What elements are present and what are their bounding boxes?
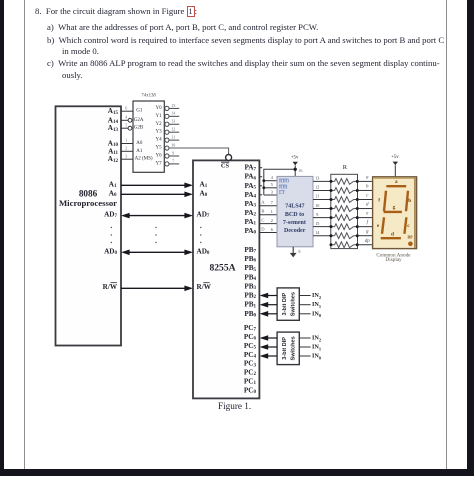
svg-text:3-bit DIP: 3-bit DIP: [282, 292, 288, 315]
svg-text:Display: Display: [386, 257, 403, 263]
8255 port C labels PC7-PC0: [244, 324, 257, 395]
8255 R/W label with overbar on W: [197, 283, 212, 291]
microprocessor U1 8086 box: [56, 106, 122, 345]
svg-text:a: a: [366, 175, 369, 180]
svg-text:g: g: [366, 230, 369, 235]
svg-text:12: 12: [315, 185, 319, 190]
wire DIP2 row 2 to 8255: [260, 353, 278, 359]
junction dots RBO RBI: [262, 179, 265, 189]
svg-text:RBI: RBI: [279, 185, 288, 190]
stubs RBO RBI LT: [264, 181, 277, 195]
wire AD7 bus double arrow: [121, 213, 193, 219]
wire A11 to A1: [121, 150, 133, 152]
svg-text:G1: G1: [136, 109, 143, 114]
svg-text:f: f: [378, 198, 380, 204]
resistor R5: [330, 215, 359, 221]
switch SW1 3-bit DIP box: [277, 288, 299, 320]
svg-text:8: 8: [298, 249, 300, 254]
svg-text:a: a: [395, 179, 398, 185]
svg-text:d: d: [391, 231, 394, 237]
svg-text:G2B: G2B: [134, 126, 144, 131]
svg-text:14: 14: [315, 230, 320, 235]
resistor R3: [330, 197, 359, 203]
power +5v symbol above 74LS47: [291, 156, 299, 177]
wire DIP1 row 2 to 8255: [260, 311, 278, 317]
svg-text:d: d: [366, 203, 369, 208]
segment e: [382, 217, 384, 234]
decoder U2 74x138 box: [133, 94, 164, 173]
pin numbers 7 1 2 6: [271, 200, 273, 232]
8086 bus pin labels: [104, 180, 117, 255]
svg-text:e: e: [366, 212, 369, 217]
segment f: [384, 191, 386, 212]
svg-text:Y2: Y2: [155, 122, 162, 127]
svg-text:10: 10: [171, 142, 175, 147]
svg-text:12: 12: [171, 127, 175, 132]
svg-text:G2A: G2A: [134, 118, 144, 123]
svg-text:11: 11: [315, 194, 319, 199]
svg-text:Switches: Switches: [291, 336, 297, 360]
resistor R1: [330, 179, 359, 185]
svg-text:1: 1: [125, 138, 127, 143]
svg-text:LT: LT: [279, 191, 286, 196]
svg-text:g: g: [393, 204, 396, 210]
svg-text:b: b: [408, 198, 411, 204]
svg-text:6: 6: [271, 227, 273, 232]
svg-text:D: D: [261, 226, 265, 231]
svg-text:A1: A1: [136, 149, 143, 154]
segment d: [381, 237, 401, 239]
svg-text:b: b: [366, 184, 369, 189]
svg-text:+5v: +5v: [291, 156, 299, 161]
svg-text:5: 5: [271, 182, 273, 187]
wire A14 to G2A: [121, 119, 128, 121]
output pin numbers 13 12 11 10 9 15 14: [315, 176, 320, 235]
pin numbers 4 5 3: [271, 175, 274, 194]
wire A13 to G2B: [121, 127, 128, 129]
svg-text:c: c: [366, 194, 369, 199]
figure caption: [218, 401, 251, 411]
svg-text:Switches: Switches: [291, 292, 297, 316]
svg-text:15: 15: [171, 103, 175, 108]
common anode display caption: [376, 252, 411, 262]
wire DIP1 row 1 to 8255: [260, 302, 278, 308]
svg-text:IN1: IN1: [312, 301, 321, 308]
wire DIP1 row 2 to IN: [299, 313, 310, 315]
switch SW2 3-bit DIP box: [277, 332, 299, 365]
wire DIP2 row 2 to IN: [299, 355, 310, 357]
svg-text:6: 6: [125, 105, 127, 110]
svg-text:8086: 8086: [79, 188, 98, 198]
svg-text:BCD to: BCD to: [285, 212, 304, 218]
resistor R8: [330, 242, 359, 248]
svg-text:15: 15: [315, 221, 319, 226]
wire DIP1 row 0 to IN: [299, 295, 310, 297]
resistor network R box: [331, 164, 358, 249]
svg-text:+5v: +5v: [391, 155, 399, 160]
wire DIP2 row 1 to 8255: [260, 344, 278, 350]
svg-text:4: 4: [125, 115, 127, 120]
input letters A B C D: [261, 200, 265, 232]
wire A1 bus: [121, 183, 193, 189]
segment g: [384, 211, 402, 213]
svg-text:R: R: [343, 164, 348, 171]
segment c: [404, 217, 406, 234]
segment a: [386, 185, 406, 187]
svg-text:14: 14: [171, 111, 175, 116]
resistor R7: [330, 233, 359, 239]
svg-text:Y7: Y7: [155, 161, 162, 166]
question text: [35, 6, 197, 16]
svg-text:2: 2: [125, 146, 127, 151]
wire A10 to A0: [121, 143, 133, 145]
junction dot on +5v at pin16: [294, 168, 297, 171]
svg-text:4: 4: [271, 175, 274, 180]
page edge line left: [24, 0, 25, 469]
segment letters a b c d e f g dp: [365, 175, 371, 243]
wires 74LS47 outputs to resistor network: [313, 181, 331, 235]
wire Y5 to CS of 8255: [169, 148, 229, 154]
svg-text:Y5: Y5: [155, 146, 162, 151]
CS bubble: [226, 155, 232, 161]
svg-text:f: f: [367, 221, 369, 226]
resistor R4: [330, 206, 359, 212]
decoder input pin numbers 6 4 5 1 2 3: [125, 105, 127, 158]
wire DIP2 row 0 to IN: [299, 337, 310, 339]
decoder output bubbles and stubs: [165, 106, 179, 166]
wire DIP2 row 0 to 8255: [260, 335, 278, 341]
svg-text:2: 2: [271, 218, 273, 223]
PPI U3 8255A box: [193, 160, 259, 398]
CS label with overbar: [221, 162, 230, 170]
seven segment display U5 common anode: [373, 177, 417, 249]
decoder U4 74LS47 box: [277, 176, 313, 246]
resistor R6: [330, 224, 359, 230]
segment dp dot: [408, 242, 413, 247]
8086 R/W label with overbar on W: [103, 283, 118, 291]
svg-text:Decoder: Decoder: [284, 228, 306, 234]
svg-text:R/W: R/W: [103, 283, 118, 291]
svg-text:Y6: Y6: [155, 153, 162, 158]
power +5v symbol above display: [391, 155, 399, 177]
wires PA3-PA0 to 74LS47 A B C D: [259, 206, 277, 233]
svg-text:74LS47: 74LS47: [285, 204, 304, 210]
svg-text:10: 10: [315, 203, 319, 208]
svg-text:DP: DP: [407, 235, 413, 239]
wire RD/WR bus: [121, 286, 193, 292]
segment b: [406, 191, 408, 212]
svg-text:3: 3: [271, 189, 273, 194]
svg-text:3-bit DIP: 3-bit DIP: [282, 337, 288, 360]
svg-text:11: 11: [171, 135, 175, 140]
bubble G2B: [128, 126, 132, 130]
page bottom black bar: [0, 469, 474, 477]
svg-text:13: 13: [171, 119, 175, 124]
8255 left pin labels: [197, 180, 210, 255]
svg-text:13: 13: [315, 176, 319, 181]
wire DIP1 row 0 to 8255: [260, 293, 278, 299]
page left black bar: [0, 0, 4, 476]
svg-text:9: 9: [316, 212, 318, 217]
svg-text:Y0: Y0: [155, 106, 162, 111]
8255 port B labels PB7-PB0: [244, 246, 256, 318]
svg-text:Microprocessor: Microprocessor: [59, 198, 117, 208]
wire A0 bus: [121, 192, 193, 198]
svg-text:16: 16: [298, 168, 302, 173]
svg-text:5: 5: [125, 122, 127, 127]
svg-text:R/W: R/W: [197, 283, 212, 291]
unconnected PA7-PA4 pin ticks: [259, 168, 262, 195]
bubble G2A: [128, 118, 132, 122]
svg-text:C: C: [261, 217, 264, 222]
wire A12 to A2: [121, 158, 133, 160]
svg-text:9: 9: [172, 150, 174, 155]
svg-text:IN1: IN1: [312, 344, 321, 351]
svg-text:IN2: IN2: [312, 335, 321, 342]
ground symbol under 74LS47: [290, 247, 297, 258]
IN2 IN1 IN0 labels: [312, 335, 322, 360]
wires resistors to display segments: [357, 181, 372, 244]
svg-text:3: 3: [125, 153, 127, 158]
svg-text:IN0: IN0: [312, 310, 322, 317]
svg-text:8255A: 8255A: [209, 262, 235, 273]
decoder input labels: [134, 109, 153, 162]
svg-text:A: A: [261, 200, 265, 205]
svg-text:IN0: IN0: [312, 353, 322, 360]
page edge line right: [446, 0, 447, 469]
wire A15 to G1: [121, 110, 133, 112]
svg-text:74x138: 74x138: [141, 94, 156, 99]
wire +5v rail to RBO RBI LT: [264, 169, 295, 195]
svg-text:7: 7: [271, 200, 273, 205]
svg-text:1: 1: [271, 209, 273, 214]
svg-text:Y1: Y1: [155, 114, 162, 119]
wire DIP1 row 1 to IN: [299, 304, 310, 306]
svg-text:dp: dp: [365, 239, 371, 244]
decoder output labels Y0-Y7: [155, 106, 162, 167]
wire AD0 bus double arrow: [121, 250, 193, 256]
svg-text:Y4: Y4: [155, 138, 162, 143]
svg-text:A2 (MS): A2 (MS): [135, 157, 153, 162]
svg-text:RBO: RBO: [279, 179, 290, 184]
page right black bar: [467, 0, 474, 476]
decoder output pin numbers 15 14 13 12 11 10 9 7: [171, 103, 175, 164]
svg-text:B: B: [261, 209, 264, 214]
ellipsis dots between buses: [111, 227, 202, 243]
svg-text:CS: CS: [221, 163, 230, 170]
wire DIP2 row 1 to IN: [299, 346, 310, 348]
RBO RBI LT blue labels with overbars: [279, 179, 290, 196]
svg-text:7: 7: [172, 158, 174, 163]
resistor R2: [330, 188, 359, 194]
IN2 IN1 IN0 labels: [312, 292, 322, 318]
8255 port A labels PA7-PA0: [244, 164, 256, 235]
svg-text:IN2: IN2: [312, 292, 321, 299]
segment labels inside display: [377, 179, 413, 239]
svg-text:A0: A0: [136, 141, 143, 146]
svg-text:Y3: Y3: [155, 130, 162, 135]
svg-text:7-sement: 7-sement: [283, 220, 306, 226]
